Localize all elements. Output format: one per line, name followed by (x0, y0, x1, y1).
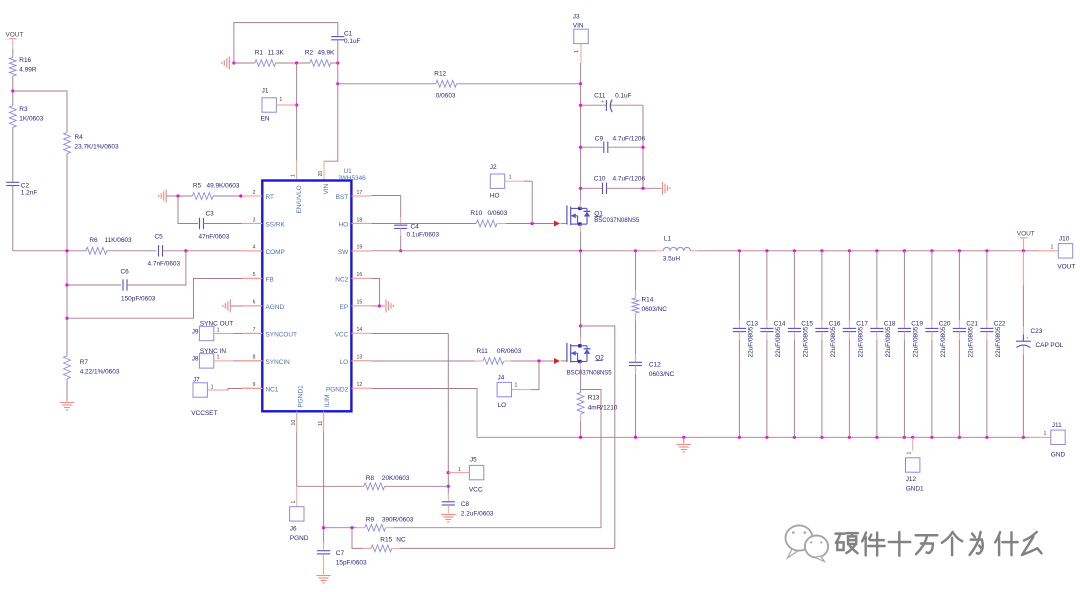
pin 12 PGND2 (351, 387, 371, 389)
resistor R16 (9, 57, 16, 76)
svg-text:22uF/0805: 22uF/0805 (885, 326, 892, 357)
svg-text:15: 15 (357, 300, 363, 306)
watermark icon (786, 525, 829, 561)
svg-text:VOUT: VOUT (1057, 264, 1075, 271)
svg-text:C2: C2 (21, 183, 30, 190)
wire SW down to Q2 (580, 251, 582, 326)
svg-text:R1: R1 (255, 50, 264, 57)
svg-text:SW: SW (338, 249, 349, 256)
svg-text:C14: C14 (774, 320, 786, 327)
wire cross branch (581, 326, 615, 548)
svg-text:U1: U1 (344, 168, 353, 175)
svg-text:22uF/0805: 22uF/0805 (775, 326, 782, 357)
wire joining cap right ends (642, 105, 644, 188)
capacitor C2 (6, 181, 19, 183)
svg-text:C5: C5 (155, 234, 164, 241)
svg-text:GND: GND (1051, 452, 1066, 459)
svg-text:C16: C16 (829, 320, 841, 327)
wire (107, 250, 157, 252)
svg-text:C19: C19 (911, 320, 923, 327)
port arrow (HO gate) (554, 221, 560, 227)
svg-text:C22: C22 (994, 320, 1006, 327)
svg-text:20: 20 (318, 171, 324, 177)
pin 14 VCC (351, 332, 371, 334)
svg-text:1: 1 (217, 327, 220, 333)
wire down to COMP net (12, 186, 14, 251)
svg-text:22uF/0805: 22uF/0805 (802, 326, 809, 357)
svg-text:HO: HO (490, 193, 500, 200)
svg-text:J10: J10 (1059, 236, 1070, 243)
node junction (11, 89, 14, 92)
svg-text:J11: J11 (1052, 422, 1062, 429)
transistor Q2 (561, 360, 567, 362)
svg-text:PGND1: PGND1 (297, 385, 304, 408)
wire to R4 (13, 91, 67, 132)
connector J1 (262, 98, 276, 112)
svg-text:5: 5 (253, 272, 256, 278)
svg-text:J9: J9 (192, 328, 199, 335)
svg-text:C3: C3 (206, 211, 215, 218)
svg-text:22uF/0805: 22uF/0805 (967, 326, 974, 357)
svg-text:C15: C15 (801, 320, 813, 327)
ground (RT divider) (165, 190, 167, 203)
svg-text:C13: C13 (746, 320, 758, 327)
capacitor C18 (875, 249, 878, 252)
svg-text:R2: R2 (305, 50, 314, 57)
svg-text:R15: R15 (380, 537, 392, 544)
capacitor C19 (903, 249, 906, 252)
svg-text:SYNCIN: SYNCIN (266, 359, 291, 366)
svg-text:LO: LO (498, 402, 507, 409)
svg-text:22uF/0805: 22uF/0805 (857, 326, 864, 357)
svg-text:R7: R7 (80, 359, 89, 366)
svg-text:LO: LO (340, 359, 349, 366)
svg-text:SS/RK: SS/RK (266, 222, 286, 229)
pin 7 SYNCOUT (242, 332, 262, 334)
capacitor C13 (738, 249, 741, 252)
wire to SS/RK pin (204, 223, 243, 225)
svg-text:NC: NC (396, 537, 406, 544)
capacitor C8 (447, 494, 449, 502)
svg-text:C1: C1 (344, 31, 353, 38)
svg-text:PGND: PGND (290, 535, 309, 542)
capacitor C15 (793, 249, 796, 252)
svg-text:1: 1 (509, 175, 512, 181)
svg-text:FB: FB (266, 277, 274, 284)
node between R1,R2 (276, 62, 310, 64)
wire C6 to COMP node (127, 251, 186, 285)
svg-text:NC1: NC1 (266, 386, 279, 393)
wire Q1 drain up / source down (579, 200, 582, 208)
svg-text:VOUT: VOUT (6, 32, 24, 39)
svg-text:8: 8 (253, 355, 256, 361)
capacitor C21 (958, 249, 961, 252)
svg-text:C7: C7 (336, 550, 345, 557)
wire PGND2 (371, 389, 477, 438)
svg-text:1: 1 (458, 467, 461, 473)
ground (EP) (385, 300, 387, 313)
connector J12 GND1 (912, 437, 914, 451)
svg-text:1K/0603: 1K/0603 (19, 116, 43, 123)
svg-text:R8: R8 (366, 475, 375, 482)
ground (AGND) (229, 300, 231, 313)
svg-text:J3: J3 (573, 14, 580, 21)
wire (166, 195, 192, 197)
svg-text:1: 1 (217, 355, 220, 361)
ground (C7) (316, 575, 330, 577)
wire NC2 to EP (371, 279, 379, 307)
wire (12, 127, 14, 182)
svg-text:C9: C9 (595, 136, 604, 143)
wire kelvin branch (581, 390, 601, 528)
svg-text:R4: R4 (75, 134, 84, 141)
svg-text:R14: R14 (642, 297, 654, 304)
pin 18 HO (351, 222, 371, 224)
svg-text:C20: C20 (939, 320, 951, 327)
svg-text:J1: J1 (262, 88, 269, 95)
wire LO (371, 360, 475, 362)
svg-text:2: 2 (253, 190, 256, 196)
pin 6 AGND (242, 305, 262, 307)
svg-text:16: 16 (357, 272, 363, 278)
svg-text:1: 1 (907, 452, 913, 455)
svg-text:+: + (601, 99, 604, 105)
svg-text:EP: EP (340, 304, 349, 311)
wire C1 to R12 node (337, 40, 339, 84)
svg-text:1: 1 (291, 174, 297, 177)
svg-text:+: + (1026, 337, 1029, 342)
svg-text:R6: R6 (89, 237, 98, 244)
svg-text:R9: R9 (366, 517, 375, 524)
transistor Q1 (561, 223, 567, 225)
svg-text:SYNCOUT: SYNCOUT (266, 331, 298, 338)
wire (497, 223, 506, 225)
svg-text:4.7uF/1206: 4.7uF/1206 (613, 136, 646, 143)
pin 2 RT (242, 195, 262, 197)
svg-text:1: 1 (515, 383, 518, 389)
svg-text:17: 17 (357, 190, 363, 196)
svg-text:1.2nF: 1.2nF (21, 190, 38, 197)
resistor R4 (64, 132, 71, 153)
pin 8 SYNCIN (242, 360, 262, 362)
capacitor C20 (930, 249, 933, 252)
ground (power rail) (683, 437, 685, 443)
svg-text:22uF/0805: 22uF/0805 (940, 326, 947, 357)
pin 16 NC2 (351, 277, 371, 279)
svg-text:VCC: VCC (335, 331, 349, 338)
svg-text:6: 6 (253, 300, 256, 306)
svg-text:NC2: NC2 (335, 277, 348, 284)
capacitor C23 CAP POL (1022, 249, 1025, 252)
svg-text:J8: J8 (192, 356, 199, 363)
svg-text:10: 10 (291, 420, 297, 426)
capacitor C5 (158, 245, 160, 256)
svg-text:20K/0603: 20K/0603 (382, 475, 410, 482)
svg-text:18: 18 (357, 217, 363, 223)
svg-text:0603/NC: 0603/NC (642, 306, 668, 313)
svg-text:3: 3 (253, 217, 256, 223)
pin 15 EP (351, 305, 371, 307)
pin 5 FB (242, 277, 262, 279)
svg-text:22uF/0805: 22uF/0805 (747, 326, 754, 357)
wire Q2 source to R13 (579, 362, 582, 369)
svg-text:14: 14 (357, 327, 363, 333)
svg-text:R10: R10 (470, 210, 482, 217)
wire top loop (234, 23, 338, 63)
wire (66, 379, 68, 402)
svg-text:HO: HO (339, 222, 349, 229)
svg-text:4.7uF/1206: 4.7uF/1206 (613, 176, 646, 183)
pin 4 COMP (242, 250, 262, 252)
svg-text:R16: R16 (19, 57, 31, 64)
svg-text:JWH5346: JWH5346 (338, 175, 367, 182)
wire BST (371, 195, 400, 197)
svg-text:R13: R13 (588, 395, 600, 402)
svg-text:L1: L1 (664, 236, 672, 243)
svg-text:0603/NC: 0603/NC (649, 371, 675, 378)
pin 9 NC1 (242, 387, 262, 389)
svg-text:22uF/0805: 22uF/0805 (830, 326, 837, 357)
svg-text:2.2uF/0603: 2.2uF/0603 (461, 511, 494, 518)
wire PGND1 down (296, 431, 298, 486)
wire (left rail) (66, 154, 68, 356)
svg-text:COMP: COMP (266, 249, 285, 256)
svg-text:R3: R3 (19, 106, 28, 113)
pin 19 SW (351, 250, 371, 252)
wire ILIM down (323, 431, 325, 542)
svg-text:AGND: AGND (266, 304, 285, 311)
port arrow (LO gate) (554, 358, 560, 364)
svg-text:J4: J4 (498, 375, 505, 382)
svg-text:R5: R5 (193, 183, 202, 190)
svg-text:23.7K/1%/0603: 23.7K/1%/0603 (75, 144, 119, 151)
capacitor C6 (67, 284, 121, 286)
svg-text:J2: J2 (490, 164, 497, 171)
capacitor C22 (985, 249, 988, 252)
svg-text:0/0603: 0/0603 (436, 93, 456, 100)
wire FB (67, 279, 242, 319)
svg-text:C4: C4 (411, 224, 420, 231)
wire VIN rail (580, 84, 582, 200)
svg-text:11K/0603: 11K/0603 (105, 237, 133, 244)
svg-text:0.1uF: 0.1uF (615, 93, 632, 100)
svg-text:1: 1 (279, 97, 282, 103)
svg-text:22uF/0805: 22uF/0805 (912, 326, 919, 357)
svg-text:49.9K: 49.9K (318, 50, 336, 57)
svg-text:47nF/0603: 47nF/0603 (199, 234, 230, 241)
svg-text:0.1uF/0603: 0.1uF/0603 (407, 232, 440, 239)
resistor R7 (64, 356, 71, 379)
svg-text:3.5uH: 3.5uH (663, 256, 681, 263)
svg-text:EN/UVLO: EN/UVLO (296, 185, 303, 213)
svg-text:ILIM: ILIM (324, 395, 331, 408)
svg-text:11: 11 (318, 421, 324, 426)
svg-text:C21: C21 (966, 320, 978, 327)
svg-text:R12: R12 (434, 71, 446, 78)
svg-text:4.22/1%/0603: 4.22/1%/0603 (80, 369, 120, 376)
svg-text:0/0603: 0/0603 (488, 210, 508, 217)
svg-text:9: 9 (253, 382, 256, 388)
wire to VIN pin (20) (324, 84, 338, 161)
ground (C8) (441, 514, 455, 516)
svg-text:J6: J6 (290, 526, 297, 533)
svg-text:J5: J5 (470, 457, 477, 464)
svg-text:RT: RT (266, 194, 275, 201)
wire AGND ground (230, 305, 242, 307)
svg-text:1: 1 (1044, 431, 1047, 437)
svg-text:GND1: GND1 (906, 486, 924, 493)
pin 13 LO (351, 360, 371, 362)
svg-text:150pF/0603: 150pF/0603 (121, 296, 156, 303)
svg-text:390R/0603: 390R/0603 (382, 517, 414, 524)
ground (R1) (228, 57, 230, 70)
wire to C3 (178, 196, 198, 224)
svg-text:C6: C6 (121, 269, 130, 276)
svg-text:BSC037N08NS5: BSC037N08NS5 (594, 218, 640, 224)
ground (R7) (60, 402, 74, 404)
svg-text:0.1uF: 0.1uF (344, 38, 361, 45)
ground (input caps) (662, 182, 664, 195)
svg-text:C17: C17 (856, 320, 868, 327)
svg-text:C18: C18 (884, 320, 896, 327)
svg-text:BSC037N08NS5: BSC037N08NS5 (567, 371, 613, 377)
svg-text:J12: J12 (906, 476, 917, 483)
svg-text:BST: BST (336, 194, 349, 201)
wire (12, 76, 14, 106)
svg-text:22uF/0805: 22uF/0805 (995, 326, 1002, 357)
svg-text:12: 12 (357, 382, 363, 388)
capacitor C3 (199, 218, 201, 229)
svg-text:4.7nF/0603: 4.7nF/0603 (148, 261, 181, 268)
capacitor C14 (765, 249, 768, 252)
svg-text:VOUT: VOUT (1017, 231, 1035, 238)
capacitor C4 (394, 224, 407, 226)
IC U1 JWH5346 (buck controller) (262, 181, 351, 412)
pin 17 BST (351, 195, 371, 197)
wire SW rail (371, 250, 656, 252)
svg-text:13: 13 (357, 355, 363, 361)
svg-text:VCCSET: VCCSET (191, 410, 217, 417)
wire ground rail (477, 436, 1030, 438)
svg-text:C10: C10 (594, 176, 606, 183)
svg-text:19: 19 (357, 245, 363, 251)
svg-text:EN: EN (261, 116, 270, 123)
svg-text:C12: C12 (649, 362, 661, 369)
wire EN branch to pin 1 (296, 63, 298, 161)
capacitor C16 (820, 249, 823, 252)
wire VCC (371, 333, 448, 335)
pin 3 SS/RK (242, 222, 262, 224)
svg-text:4.99R: 4.99R (19, 67, 37, 74)
svg-text:15pF/0603: 15pF/0603 (336, 560, 367, 567)
wire VOUT rail (698, 250, 1039, 252)
capacitor C1 (331, 36, 344, 38)
capacitor C17 (848, 249, 851, 252)
svg-text:CAP POL: CAP POL (1036, 342, 1064, 349)
wire to RT pin (213, 195, 242, 197)
svg-text:VIN: VIN (573, 23, 584, 30)
resistor R3 (9, 106, 16, 128)
svg-text:49.9K/0603: 49.9K/0603 (207, 183, 240, 190)
svg-text:4: 4 (253, 245, 256, 251)
svg-text:R11: R11 (477, 348, 489, 355)
wire HO (371, 223, 476, 225)
capacitor C7 (323, 542, 325, 550)
svg-text:1: 1 (1051, 245, 1054, 251)
svg-text:4mR/1210: 4mR/1210 (588, 405, 618, 412)
svg-text:VIN: VIN (323, 183, 330, 194)
svg-text:1: 1 (291, 501, 297, 504)
svg-text:11.3K: 11.3K (268, 50, 285, 57)
svg-text:PGND2: PGND2 (326, 386, 349, 393)
wire to COMP pin (163, 250, 243, 252)
svg-text:C23: C23 (1031, 328, 1043, 335)
svg-text:7: 7 (253, 327, 256, 333)
connector J6 PGND (296, 486, 298, 507)
watermark text (hand-drawn CJK strokes) (838, 534, 1044, 558)
svg-text:C8: C8 (461, 501, 470, 508)
svg-text:0R/0603: 0R/0603 (497, 348, 522, 355)
svg-text:VCC: VCC (469, 487, 483, 494)
svg-text:1: 1 (574, 50, 580, 53)
